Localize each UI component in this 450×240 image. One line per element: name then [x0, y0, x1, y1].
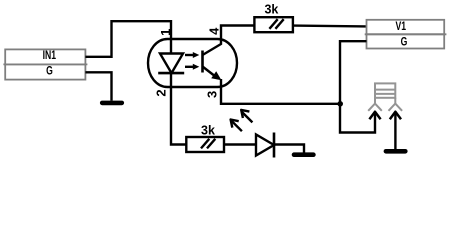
arrow terminal right — [390, 112, 401, 120]
opto coupling arrow lower — [185, 64, 199, 70]
svg-text:3k: 3k — [201, 123, 215, 137]
connector V1/G box — [365, 20, 447, 49]
wire R1 to V1 — [293, 24, 367, 27]
opto LED cathode lead — [170, 73, 172, 87]
connector IN1/G box — [3, 49, 87, 79]
wire V1.G down to node — [340, 41, 367, 104]
wire IN1 to opto pin 1 — [85, 21, 171, 57]
opto LED cathode bar — [158, 72, 184, 75]
wire LED to ground — [274, 145, 304, 153]
opto LED triangle — [160, 54, 183, 74]
wire G to ground — [85, 72, 111, 100]
ground (bottom middle) — [294, 152, 313, 157]
svg-text:3: 3 — [205, 91, 220, 98]
svg-text:4: 4 — [207, 27, 222, 35]
phototransistor emitter — [203, 67, 219, 79]
resistor R1 box — [254, 17, 293, 32]
opto coupling arrow upper — [185, 52, 199, 58]
ground (bottom right) — [386, 149, 405, 154]
svg-text:3k: 3k — [264, 3, 278, 17]
wire opto pin 2 to resistor R2 — [171, 87, 186, 145]
arrow terminal left — [369, 112, 380, 120]
resistor R2 slashes — [201, 139, 209, 149]
svg-text:V1: V1 — [396, 21, 407, 34]
opto LED anode lead — [170, 40, 172, 54]
resistor R1 slashes — [269, 19, 277, 29]
wire opto pin 3 to node — [221, 79, 340, 104]
svg-text:1: 1 — [158, 29, 173, 36]
gray part body — [375, 83, 395, 103]
emitter arrowhead — [211, 71, 221, 80]
svg-text:IN1: IN1 — [43, 50, 57, 63]
LED triangle — [256, 135, 274, 156]
wire R2 to LED — [224, 143, 256, 145]
pin label 1 — [158, 29, 173, 36]
phototransistor collector — [203, 40, 222, 55]
pin label 3 — [205, 91, 220, 98]
LED emission arrow lower — [231, 120, 242, 132]
svg-text:2: 2 — [153, 89, 168, 96]
LED emission arrow upper — [241, 110, 252, 123]
wire ground to arrow terminal — [394, 112, 396, 150]
pin label 4 — [207, 27, 222, 35]
svg-text:G: G — [401, 37, 408, 50]
optocoupler body — [148, 39, 237, 87]
LED cathode bar — [273, 133, 276, 158]
ground (left) — [102, 101, 122, 106]
pin label 2 — [153, 89, 168, 96]
gray part pin chevron right — [389, 104, 403, 111]
resistor R2 box — [186, 137, 224, 152]
junction node — [337, 101, 343, 107]
wire opto pin 4 to resistor R1 — [221, 26, 254, 41]
gray part pin chevron left — [368, 104, 382, 111]
wire node to arrow terminal — [340, 104, 375, 133]
svg-text:G: G — [46, 65, 53, 78]
phototransistor base bar — [201, 51, 204, 73]
